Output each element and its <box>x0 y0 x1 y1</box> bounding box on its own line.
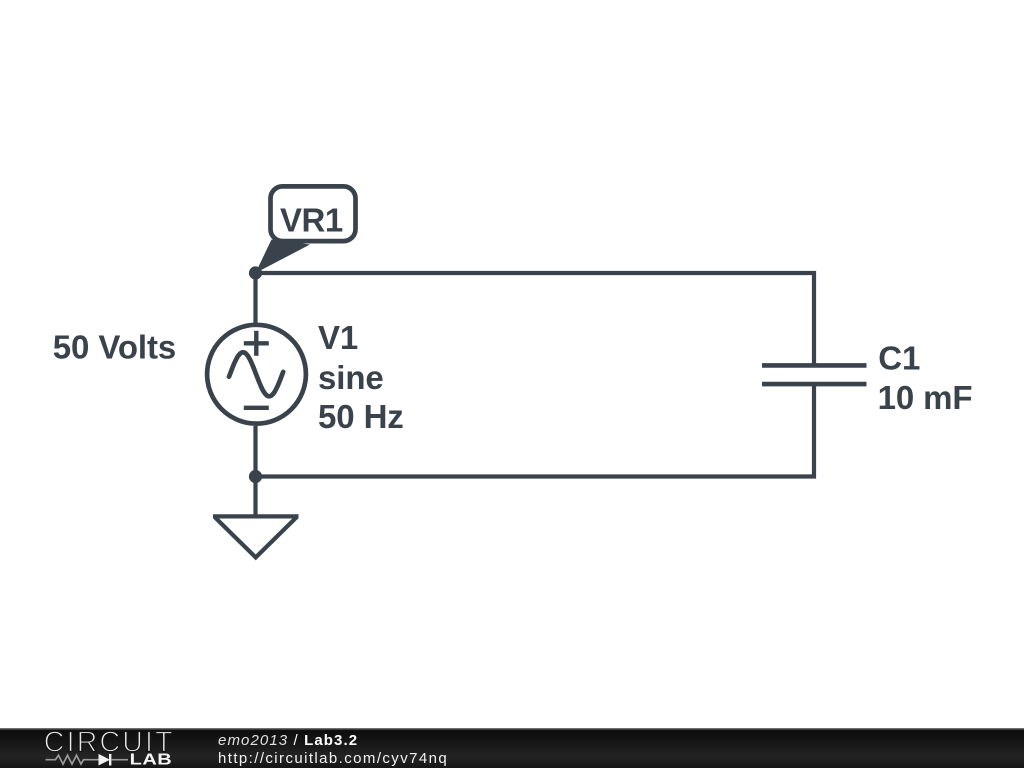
V1 sine wave <box>229 352 283 396</box>
svg-text:V1: V1 <box>318 319 358 356</box>
svg-text:10 mF: 10 mF <box>878 379 973 416</box>
svg-text:50 Volts: 50 Volts <box>53 329 176 366</box>
node VR1 junction dot <box>249 266 262 279</box>
footer bar <box>0 728 1024 768</box>
svg-text:LAB: LAB <box>130 750 173 768</box>
V1 plus sign <box>244 331 269 356</box>
svg-text:sine: sine <box>318 359 384 396</box>
wire left vertical lower <box>253 426 257 516</box>
callout VR1 box <box>271 186 356 241</box>
wire right lower + bottom run <box>256 384 815 477</box>
svg-text:C1: C1 <box>878 340 920 377</box>
svg-text:50 Hz: 50 Hz <box>318 398 404 435</box>
ground <box>213 516 299 557</box>
voltage source V1 circle <box>207 325 306 424</box>
capacitor C1 plates <box>762 365 867 384</box>
node bottom junction dot <box>249 470 262 483</box>
svg-text:emo2013 / Lab3.2: emo2013 / Lab3.2 <box>218 732 358 749</box>
callout VR1 tail <box>256 240 311 274</box>
svg-text:VR1: VR1 <box>280 202 343 239</box>
logo resistor zigzag <box>46 755 99 764</box>
wire top + right upper run <box>256 273 815 365</box>
logo diode <box>99 754 111 766</box>
V1 minus sign <box>244 406 269 410</box>
svg-text:http://circuitlab.com/cyv74nq: http://circuitlab.com/cyv74nq <box>218 750 448 767</box>
